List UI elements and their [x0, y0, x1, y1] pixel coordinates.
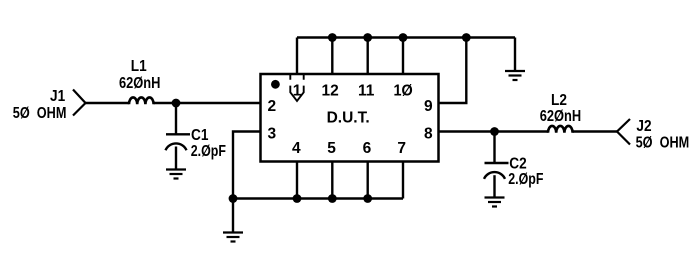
svg-text:62ØnH: 62ØnH	[119, 75, 160, 92]
svg-text:2: 2	[268, 98, 277, 115]
node pin 12 on bus	[328, 33, 337, 42]
ground below C1	[166, 170, 186, 179]
wire pin 4 stub	[296, 162, 298, 199]
wire pin 10 stub	[402, 38, 404, 75]
wire C1 to ground	[175, 147, 177, 170]
wire pin 5 stub	[331, 162, 333, 199]
svg-text:9: 9	[424, 98, 433, 115]
wire pin 11 stub	[367, 38, 369, 75]
wire bottom bus to ground	[232, 199, 234, 233]
svg-text:7: 7	[397, 140, 406, 157]
node junction L1/C1/pin2	[172, 99, 181, 108]
svg-text:3: 3	[268, 126, 277, 143]
wire bus end down to ground	[514, 38, 516, 72]
ground top right	[505, 71, 525, 80]
node junction pin8/C2/L2	[490, 127, 499, 136]
capacitor C1 2.0pF	[166, 127, 227, 159]
svg-text:L1: L1	[131, 58, 147, 75]
node pin 4 on bus	[293, 194, 302, 203]
node pin 5 on bus	[328, 194, 337, 203]
svg-text:4: 4	[292, 140, 301, 157]
svg-text:5: 5	[327, 140, 336, 157]
svg-text:11: 11	[358, 83, 375, 100]
wire pin 9 stub and riser	[439, 38, 467, 104]
ground bottom left	[223, 233, 243, 242]
connector J1	[13, 88, 86, 122]
wire pin 6 stub	[367, 162, 369, 199]
svg-text:12: 12	[322, 83, 339, 100]
svg-text:D.U.T.: D.U.T.	[327, 109, 370, 126]
node pin 11 on bus	[363, 33, 372, 42]
node pin 6 on bus	[363, 194, 372, 203]
inductor L2 620nH	[540, 92, 581, 133]
svg-text:8: 8	[424, 126, 433, 143]
svg-text:L2: L2	[551, 92, 567, 109]
svg-text:2.ØpF: 2.ØpF	[191, 142, 226, 160]
node pin 10 on bus	[399, 33, 408, 42]
bottom bus wire	[233, 197, 403, 199]
svg-text:J2: J2	[636, 118, 651, 135]
svg-text:1: 1	[293, 83, 302, 100]
svg-text:J1: J1	[50, 88, 65, 105]
svg-text:1Ø: 1Ø	[394, 82, 414, 100]
ground below C2	[485, 198, 505, 207]
svg-text:5Ø OHM: 5Ø OHM	[636, 134, 690, 151]
svg-text:62ØnH: 62ØnH	[540, 108, 581, 125]
svg-text:5Ø OHM: 5Ø OHM	[13, 105, 67, 122]
wire pin 7 stub	[402, 162, 404, 199]
pin-1 index dot	[271, 80, 280, 89]
pin-1 arrow marker	[290, 75, 303, 102]
inductor L1 620nH	[119, 58, 160, 104]
wire C2 to ground	[493, 175, 495, 197]
svg-text:2.ØpF: 2.ØpF	[508, 170, 543, 188]
wire L2 to J2	[573, 130, 617, 132]
wire J1 to L1	[86, 102, 130, 104]
wire node to C2	[493, 132, 495, 163]
wire pin 12 stub	[331, 38, 333, 75]
svg-text:6: 6	[363, 140, 372, 157]
DUT IC body	[261, 74, 439, 162]
connector J2	[617, 118, 689, 152]
wire bus down to pin 1	[296, 38, 298, 75]
wire pin 8 to L2	[439, 130, 549, 132]
node ground junction	[229, 194, 238, 203]
top bus wire	[297, 36, 515, 38]
node pin 9 riser on bus	[462, 33, 471, 42]
wire node to C1	[175, 103, 177, 134]
capacitor C2 2.0pF	[484, 156, 544, 188]
wire pin 3 to bottom bus	[233, 132, 261, 199]
wire L1 to pin 2 of DUT	[154, 102, 261, 104]
